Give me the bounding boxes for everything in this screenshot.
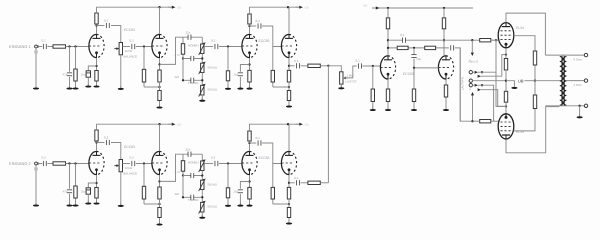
wire anode to C3 ch1 [97, 25, 105, 27]
terminal LS 3 [469, 84, 472, 87]
resistor R-k V5 [386, 80, 389, 110]
triode V5 ECC83 [380, 55, 395, 79]
resistor R-grid-series ch2 [53, 162, 66, 165]
wire mid bot ch2 [201, 190, 203, 203]
wire tap k-top route [481, 55, 506, 77]
node g1a ch1 [68, 45, 70, 47]
svg-text:47p: 47p [63, 190, 68, 194]
node Rk mid V4 ch1 [288, 86, 290, 88]
triode V1a ch1 ECC83 [89, 34, 104, 58]
ground R-k V4 ch2 [286, 221, 292, 225]
capacitor C-couple V1 ch2 [107, 140, 110, 145]
svg-text:4,7n: 4,7n [175, 53, 181, 57]
ground input ch1 [33, 86, 39, 90]
resistor R-anode V3 ch2 [248, 131, 251, 143]
resistor R-k EL34 [504, 91, 507, 102]
node g1b ch1 [74, 45, 76, 47]
terminal speaker 1 [584, 53, 587, 56]
svg-text:25µ: 25µ [234, 190, 239, 194]
resistor R-screen bottom [533, 81, 536, 109]
wire gstop to V8 [491, 120, 499, 122]
svg-text:22n: 22n [175, 75, 180, 79]
transformer T1 primary winding [560, 57, 563, 106]
wire R1 to grid ch1 [66, 46, 90, 48]
svg-text:HÖHEN: HÖHEN [188, 44, 198, 48]
node tone B ch1 [182, 79, 184, 81]
node grid V2 ch1 [143, 45, 145, 47]
capacitor C5 ch1 [215, 44, 218, 49]
potentiometer P-bass ch2 [199, 201, 206, 214]
wire selector vertical [459, 48, 461, 121]
terminal speaker 2 [584, 79, 587, 82]
wire tap k-bottom route [481, 90, 506, 107]
wire grid stop to V7 [491, 39, 499, 41]
capacitor C-k V1 ch1 [86, 71, 90, 77]
capacitor C5 ch2 [215, 161, 218, 166]
wire plate V8 [506, 107, 559, 153]
node anode V1 ch2 [95, 141, 97, 143]
wire node to C2 ch1 [69, 47, 71, 72]
svg-text:0,1: 0,1 [104, 136, 109, 140]
resistor R-k V4 lower ch1 [287, 91, 290, 106]
wire cathode V4 ch1 [288, 58, 290, 70]
svg-text:UB: UB [177, 6, 181, 10]
wire cathode V4 ch2 [288, 175, 290, 187]
wire bass to ground ch1 [201, 95, 203, 100]
svg-text:ECC83: ECC83 [259, 156, 270, 160]
svg-text:0,1: 0,1 [256, 136, 261, 140]
wire plate V5 [387, 40, 389, 55]
wire Rg2 to cathode node ch1 [144, 86, 160, 88]
resistor R-anode V3 ch1 [248, 14, 251, 26]
resistor R-k V2 lower ch2 [158, 208, 161, 224]
resistor R-gstop bottom [480, 120, 491, 123]
wire input shield down ch1 [35, 48, 37, 50]
wire tone row2 ch2 [183, 196, 202, 198]
ground R-k V4 ch1 [286, 104, 292, 108]
svg-text:8 Ohm: 8 Ohm [574, 58, 583, 62]
capacitor C6 ch2 [258, 140, 261, 145]
wire shield to ground ch1 [35, 54, 37, 88]
wire anode V3 right ch1 [250, 25, 257, 27]
supply arrow UB rail ch2 [168, 123, 175, 126]
wire C-k V3 gnd ch1 [239, 77, 241, 88]
node cathode V1 ch1 [95, 65, 97, 67]
node cathode V2 ch1 [158, 63, 160, 65]
node cathode V2 ch2 [158, 180, 160, 182]
triode V3 ch2 ECC83 [242, 151, 257, 175]
svg-text:50µ: 50µ [417, 57, 422, 61]
svg-text:22n: 22n [175, 192, 180, 196]
ground input ch2 [33, 203, 39, 207]
node grid V3 ch2 [227, 162, 229, 164]
svg-text:0,1: 0,1 [356, 59, 361, 63]
resistor R-k V2 upper ch1 [158, 70, 161, 82]
capacitor C-tone low ch2 [191, 195, 194, 200]
wire screen V8 [514, 108, 535, 131]
wire Rg4 to mid ch2 [273, 203, 289, 205]
svg-text:UB: UB [305, 123, 309, 127]
wire anode V1 up ch1 [96, 26, 98, 34]
wire top tap row [545, 54, 586, 56]
svg-text:ECC83: ECC83 [124, 145, 135, 149]
svg-text:0,1: 0,1 [400, 33, 405, 37]
svg-text:EINGANG 1: EINGANG 1 [9, 44, 32, 49]
wire treble bot ch1 [201, 54, 203, 64]
node anode V5 [387, 39, 389, 41]
capacitor C-tone low ch1 [191, 78, 194, 83]
net arrow down [471, 40, 474, 56]
terminal LS 1 [469, 71, 472, 74]
resistor R-anode V1 ch2 [95, 130, 98, 143]
svg-text:500 kΩ: 500 kΩ [208, 66, 218, 70]
ground C-k V3 ch1 [237, 86, 243, 90]
node rail R6 [443, 7, 445, 9]
resistor R-fp2 [425, 46, 436, 49]
potentiometer P-treble ch2 [199, 159, 206, 172]
wire C-k V3 gnd ch2 [239, 194, 241, 205]
resistor R-k V4 upper ch1 [287, 70, 290, 82]
wire tone row1 ch1 [183, 58, 202, 60]
resistor R-k V3 ch1 [248, 70, 251, 87]
ground C-k V3 ch2 [237, 203, 243, 207]
wire treble wiper out ch2 [204, 163, 213, 165]
wire ecap gnd ch1 [87, 77, 89, 85]
node cathode bottom [505, 105, 507, 107]
wire out row a ch1 [289, 65, 295, 67]
ground R-fp [411, 107, 417, 111]
node cathode V4 ch1 [288, 65, 290, 67]
triode V4 ch2 ECC83 [281, 151, 296, 175]
wire cathode V8 up [505, 102, 507, 114]
svg-text:LAUTST.: LAUTST. [346, 80, 358, 84]
wire C3 to pot ch2 [111, 143, 121, 160]
wire LS2 route [472, 80, 506, 82]
svg-text:0,1: 0,1 [211, 156, 216, 160]
node g1b ch2 [74, 162, 76, 164]
ground R-grid V3 ch2 [225, 203, 231, 207]
resistor R-k V6 [444, 80, 447, 110]
node grid V6 [413, 67, 415, 69]
wire plate V4 to rail ch2 [288, 124, 290, 151]
triode V6 ECC83 [438, 55, 453, 79]
node bass top ch1 [201, 79, 203, 81]
svg-text:10 kΩ: 10 kΩ [125, 166, 133, 170]
resistor R-anode V5 [386, 8, 389, 40]
svg-text:UB: UB [305, 6, 309, 10]
svg-text:25µ: 25µ [234, 73, 239, 77]
svg-text:0,1: 0,1 [104, 19, 109, 23]
wire anode V1 up ch2 [96, 143, 98, 151]
wire splitter rail [372, 7, 473, 9]
plug arrow LS3 [472, 84, 483, 87]
svg-text:zum LS: zum LS [469, 60, 479, 64]
wire R-anode V3 to rail ch2 [250, 124, 300, 131]
resistor R-k V1 ch1 [95, 71, 98, 86]
wire fp mid to grid V6 [414, 59, 439, 68]
svg-text:TIEFEN: TIEFEN [188, 81, 198, 85]
svg-text:25µ: 25µ [81, 190, 86, 194]
node rail R5 [387, 7, 389, 9]
wire bottom tap row [545, 105, 584, 107]
wire R-anode to rail ch2 [97, 124, 173, 130]
capacitor C-out ch2 [297, 180, 300, 185]
node anode V1 ch1 [95, 24, 97, 26]
svg-text:4 Ohm: 4 Ohm [574, 83, 583, 87]
wire cathode V2 down ch1 [159, 58, 161, 70]
wire grid leak V7 [496, 40, 506, 106]
wire out row b ch2 [301, 182, 308, 184]
wire C2 to ground ch2 [69, 194, 71, 205]
wire input to C1 ch2 [38, 163, 43, 165]
wire pot to ground ch2 [120, 172, 122, 206]
svg-text:0,1: 0,1 [211, 39, 216, 43]
node rail V4 ch2 [287, 123, 289, 125]
ground R-k V1 ch2 [93, 201, 99, 205]
node grid V2 ch2 [143, 162, 145, 164]
wire plate V7 [506, 13, 545, 55]
pentode V7 EL34 top [498, 22, 514, 48]
wire out row c ch2 [320, 182, 328, 184]
input jack J2 [35, 162, 42, 165]
node grid EL34 top [495, 39, 497, 41]
svg-text:BALANCE: BALANCE [124, 172, 138, 176]
capacitor C6 ch1 [258, 23, 261, 28]
node grid EL34 bottom [471, 120, 473, 122]
ground secondary [577, 114, 583, 118]
wire cathode V2 down ch2 [159, 175, 161, 187]
wire cathode out ch2 [160, 154, 203, 181]
svg-text:500 kΩ: 500 kΩ [208, 205, 218, 209]
wire out row c ch1 [320, 65, 328, 67]
wire out row a ch2 [289, 182, 295, 184]
ground R-gridleak ch2 [72, 203, 78, 207]
node row A tap [471, 39, 473, 41]
wire anode V3 right ch2 [250, 142, 257, 144]
resistor R-fp1 [397, 46, 408, 49]
svg-text:0,1: 0,1 [256, 19, 261, 23]
svg-text:47p: 47p [63, 73, 68, 77]
wire to C-k V3 ch1 [240, 65, 249, 72]
node mix junction [327, 65, 329, 67]
wire C2 to ground ch1 [69, 77, 71, 88]
node treble bot ch1 [201, 57, 203, 59]
wire cathode out ch1 [160, 37, 203, 64]
wire mid bot ch1 [201, 73, 203, 86]
capacitor C-drive top [403, 38, 406, 43]
ground R-k V2 ch2 [156, 222, 162, 226]
resistor R-grid V3 ch1 [226, 47, 229, 88]
wire cathode V1 down ch1 [96, 58, 98, 70]
wire LS1 route [478, 71, 496, 73]
wire Rk mid ch2 [159, 199, 161, 208]
resistor R-k V3 ch2 [248, 187, 251, 204]
triode V3 ch1 ECC83 [242, 34, 257, 58]
capacitor C4 ch2 [132, 161, 135, 166]
triode V2 ch1 ECC83 [152, 34, 167, 58]
resistor R-fp gnd [412, 68, 415, 109]
plug arrow tap k-top [478, 75, 481, 78]
resistor R-k EL34 top [504, 59, 507, 71]
capacitor C-k V3 ch2 [238, 190, 243, 193]
resistor R-tone ch2 [181, 154, 184, 175]
node rail V4 ch1 [287, 6, 289, 8]
wire wiper to C4 ch2 [123, 163, 131, 165]
resistor R-gridleak ch1 [74, 47, 77, 88]
capacitor C4 ch1 [132, 44, 135, 49]
wire Rg2 to cathode node ch2 [144, 203, 160, 205]
resistor R-k V4 upper ch2 [287, 187, 290, 199]
wire treble wiper out ch1 [204, 46, 213, 48]
potentiometer P-treble ch1 [199, 42, 206, 55]
resistor R-anode V1 ch1 [95, 13, 98, 26]
capacitor C-drive bottom [451, 45, 454, 50]
shield pad ch2 [34, 167, 37, 170]
wire Rk mid ch1 [159, 82, 161, 91]
plug arrow tap k-bottom [478, 88, 481, 91]
svg-text:10 kΩ: 10 kΩ [125, 49, 133, 53]
supply arrow UB rail2 ch2 [296, 123, 303, 126]
node grid V3 ch1 [227, 45, 229, 47]
potentiometer P-volume ch2 [114, 160, 122, 172]
svg-text:0,1: 0,1 [294, 59, 299, 63]
wire pot to ground ch1 [120, 55, 122, 89]
wire anode V3 up ch2 [249, 143, 251, 151]
svg-text:BALANCE: BALANCE [124, 55, 138, 59]
plug arrow LS1 [472, 71, 483, 74]
potentiometer P-volume ch1 [114, 43, 122, 55]
ground C-k V1 ch2 [85, 201, 91, 205]
wire C4 to grid V2 ch2 [136, 163, 152, 165]
ground P-volume ch1 [118, 86, 124, 90]
wire UB row [525, 80, 562, 82]
resistor R-mix ch2 [308, 181, 320, 184]
capacitor C2 ch2 [67, 190, 72, 193]
ground C2 ch1 [66, 86, 72, 90]
node tone A ch2 [182, 174, 184, 176]
resistor R-k V4 lower ch2 [287, 208, 290, 223]
ground R-k V2 ch1 [156, 105, 162, 109]
node anode V3 ch1 [248, 25, 250, 27]
svg-text:0,1: 0,1 [42, 39, 47, 43]
wire Rk V4 mid ch1 [288, 82, 290, 91]
resistor R-grid-series ch1 [53, 45, 66, 48]
wire mix to master pot [328, 66, 341, 72]
wire plate V2 to rail ch2 [159, 124, 161, 151]
ground P-master [338, 85, 344, 89]
wire fp mid down [413, 48, 415, 55]
resistor R-grid V4 ch1 [271, 47, 274, 88]
ground P-volume ch2 [118, 203, 124, 207]
wire cathode V7 lower [505, 70, 507, 91]
capacitor C-tone mid ch2 [191, 173, 194, 178]
terminal speaker 3 [584, 104, 587, 107]
svg-text:EL34: EL34 [516, 26, 524, 30]
wire tone row1 ch2 [183, 175, 202, 177]
ground R-k V3 ch2 [246, 203, 252, 207]
wire tone row2 ch1 [183, 79, 202, 81]
svg-text:22n: 22n [186, 148, 191, 152]
resistor R-k V1 ch2 [95, 188, 98, 203]
wire master pot gnd [340, 84, 342, 87]
resistor R-anode V6 [442, 8, 445, 40]
ground R-k V6 [443, 107, 449, 111]
wire sec gnd drop [579, 106, 581, 117]
supply arrow UB rail2 ch1 [296, 6, 303, 9]
triode V1a ch2 ECC83 [89, 151, 104, 175]
svg-text:0,1: 0,1 [42, 156, 47, 160]
ground cathode tee [506, 81, 518, 89]
capacitor C-in ch2 [44, 161, 47, 166]
svg-text:500 kΩ: 500 kΩ [208, 88, 218, 92]
wire out row b ch1 [301, 65, 308, 67]
wire shield to ground ch2 [35, 171, 37, 205]
potentiometer P-bass ch1 [199, 84, 206, 97]
node rail V2 ch2 [158, 123, 160, 125]
wire master wiper [343, 66, 357, 78]
ground R-grid V3 ch1 [225, 86, 231, 90]
wire cathode V3 ch2 [249, 175, 251, 187]
node secondary ground [578, 105, 580, 107]
triode V2 ch2 ECC83 [152, 151, 167, 175]
wire C6 to grid V4 ch1 [262, 26, 281, 47]
supply arrow UB splitter [372, 6, 379, 9]
node cathode V3 ch2 [248, 180, 250, 182]
potentiometer P-mid ch2 [199, 179, 206, 191]
input jack J1 [35, 45, 42, 48]
capacitor C-tone top ch1 [188, 35, 191, 40]
wire to C-k V3 ch2 [240, 182, 249, 189]
node tone A ch1 [182, 57, 184, 59]
svg-text:22n: 22n [186, 31, 191, 35]
node Rk mid V4 ch2 [288, 203, 290, 205]
capacitor C-k V1 ch2 [86, 188, 90, 194]
node anode V6 [443, 39, 445, 41]
wire anode V3 up ch1 [249, 26, 251, 34]
wire plate V4 to rail ch1 [288, 7, 290, 34]
resistor R-grid V2 ch1 [142, 47, 145, 88]
svg-text:ECC83: ECC83 [124, 28, 135, 32]
wire C4 to grid V2 ch1 [136, 46, 152, 48]
capacitor C-k V3 ch1 [238, 73, 243, 76]
wire wiper to C4 ch1 [123, 46, 131, 48]
wire grid V8 row [473, 120, 480, 122]
resistor R-grid V3 ch2 [226, 164, 229, 205]
wire C5 to grid V3 ch2 [219, 163, 242, 165]
node Rk mid V2 ch2 [158, 203, 160, 205]
svg-text:0,1: 0,1 [130, 39, 135, 43]
wire anode to C3 ch2 [97, 142, 105, 144]
wire row A [388, 39, 498, 41]
svg-text:UB: UB [363, 4, 367, 8]
capacitor C-out ch1 [297, 63, 300, 68]
capacitor C-couple V1 ch1 [107, 23, 110, 28]
wire cathode V7 down [505, 48, 507, 58]
wire cathode V1 to ecap ch2 [88, 183, 96, 188]
wire tone left col ch1 [182, 59, 184, 81]
resistor R-grid V5 [371, 66, 374, 109]
ground C2 ch2 [66, 203, 72, 207]
wire C-ps to grid V5 [363, 65, 381, 67]
wire treble top ch1 [201, 37, 203, 44]
node cathode V3 ch1 [248, 63, 250, 65]
node Rk mid V2 ch1 [158, 86, 160, 88]
node row B mid [413, 47, 415, 49]
resistor R-k V2 upper ch2 [158, 187, 161, 199]
resistor R-screen top [533, 51, 536, 81]
transformer T1 core [562, 56, 564, 106]
capacitor C-in ch1 [44, 44, 47, 49]
